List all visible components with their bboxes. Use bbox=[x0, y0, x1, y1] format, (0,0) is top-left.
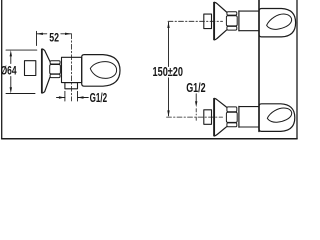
left view: wall union bbox=[25, 61, 36, 76]
dim 52: line left seg bbox=[37, 33, 47, 35]
dim 150: arrow down bbox=[167, 110, 169, 116]
right view bottom: flange cone top slant bbox=[214, 98, 226, 107]
right view bottom: handle egg bbox=[267, 108, 291, 122]
left view: valve block bbox=[62, 57, 82, 82]
svg-text:52: 52 bbox=[49, 32, 59, 44]
riser and tube and capsule left edges bbox=[258, 0, 260, 131]
svg-text:G1/2: G1/2 bbox=[90, 91, 108, 105]
dim 52: arrow right bbox=[65, 33, 71, 35]
right view top: flange face bbox=[213, 2, 215, 40]
left view: nut band top bbox=[50, 61, 60, 64]
outlet G1/2 arrow right bbox=[78, 96, 84, 98]
dim O64: line top seg bbox=[10, 55, 12, 64]
right view bottom: nut band top bbox=[227, 107, 237, 112]
left view: nut band bottom bbox=[50, 74, 60, 77]
dim 52: line right seg bbox=[61, 33, 72, 35]
right view top: valve body face bbox=[238, 11, 240, 31]
right view top: nut band middle bbox=[226, 16, 237, 26]
dim 52: arrow left bbox=[37, 33, 43, 35]
right view bottom: wall union bbox=[204, 110, 212, 125]
svg-text:150±20: 150±20 bbox=[153, 65, 184, 79]
right view top: nut band bottom bbox=[227, 26, 237, 30]
right G1/2 leader arrow bbox=[195, 101, 197, 107]
right view bottom: nut band bottom bbox=[227, 123, 237, 127]
right view bottom: body bottom edge bbox=[239, 126, 259, 128]
right view bottom: flange face bbox=[213, 98, 215, 136]
border right bbox=[296, 0, 298, 139]
left view: flange cone top slant bbox=[42, 49, 50, 62]
outlet G1/2 arrow line right bbox=[78, 97, 89, 99]
border bottom bbox=[2, 138, 297, 140]
outlet G1/2 arrow line left bbox=[57, 97, 65, 99]
right view bottom: body top edge bbox=[239, 106, 259, 108]
left view: flange face bbox=[41, 49, 43, 93]
right view top: nut band top bbox=[227, 12, 237, 15]
dim O64: ext bottom bbox=[6, 93, 35, 95]
right view top: body top edge bbox=[239, 10, 259, 12]
right view top: wall union bbox=[204, 14, 212, 29]
right G1/2 leader line bbox=[195, 94, 197, 102]
right view top: body bottom edge bbox=[239, 30, 259, 32]
dim 52: extension line bbox=[36, 31, 38, 45]
outlet G1/2 arrow left bbox=[59, 96, 65, 98]
dim 150: line bottom seg bbox=[168, 78, 170, 116]
svg-text:Ø64: Ø64 bbox=[1, 63, 17, 77]
right view bottom: centerline bbox=[167, 116, 223, 118]
right view top: flange cone bottom slant bbox=[214, 30, 226, 40]
dim O64: arrow up bbox=[10, 50, 12, 56]
right view top: handle egg bbox=[267, 14, 292, 29]
dim 150: line top seg bbox=[168, 22, 170, 66]
left view: outlet bbox=[65, 83, 78, 89]
right view bottom: nut band middle bbox=[226, 112, 237, 122]
left view: nut band middle bbox=[50, 65, 61, 74]
right view top: centerline bbox=[168, 20, 223, 22]
dim O64: ext top bbox=[6, 49, 37, 51]
outlet centerline (dash-dot) bbox=[70, 34, 72, 101]
right view bottom: flange cone bottom slant bbox=[214, 127, 226, 136]
left view: flange cone bottom slant bbox=[42, 77, 50, 93]
right view top: handle cap bbox=[259, 9, 296, 37]
right G1/2 leader tail dashdot bbox=[195, 109, 197, 123]
right view top: flange cone top slant bbox=[214, 2, 226, 12]
right view bottom: valve body face bbox=[238, 106, 240, 127]
dim O64: arrow down bbox=[10, 87, 12, 93]
left view: handle cap bbox=[82, 55, 120, 87]
outlet ext line right bbox=[77, 91, 79, 101]
dim 150: arrow up bbox=[167, 22, 169, 28]
right view bottom: handle cap bbox=[259, 104, 295, 132]
svg-text:G1/2: G1/2 bbox=[186, 81, 206, 95]
outlet ext line left bbox=[64, 91, 66, 101]
border left bbox=[1, 0, 3, 139]
dim O64: line bottom seg bbox=[10, 77, 12, 89]
left view: handle egg bbox=[90, 62, 116, 79]
